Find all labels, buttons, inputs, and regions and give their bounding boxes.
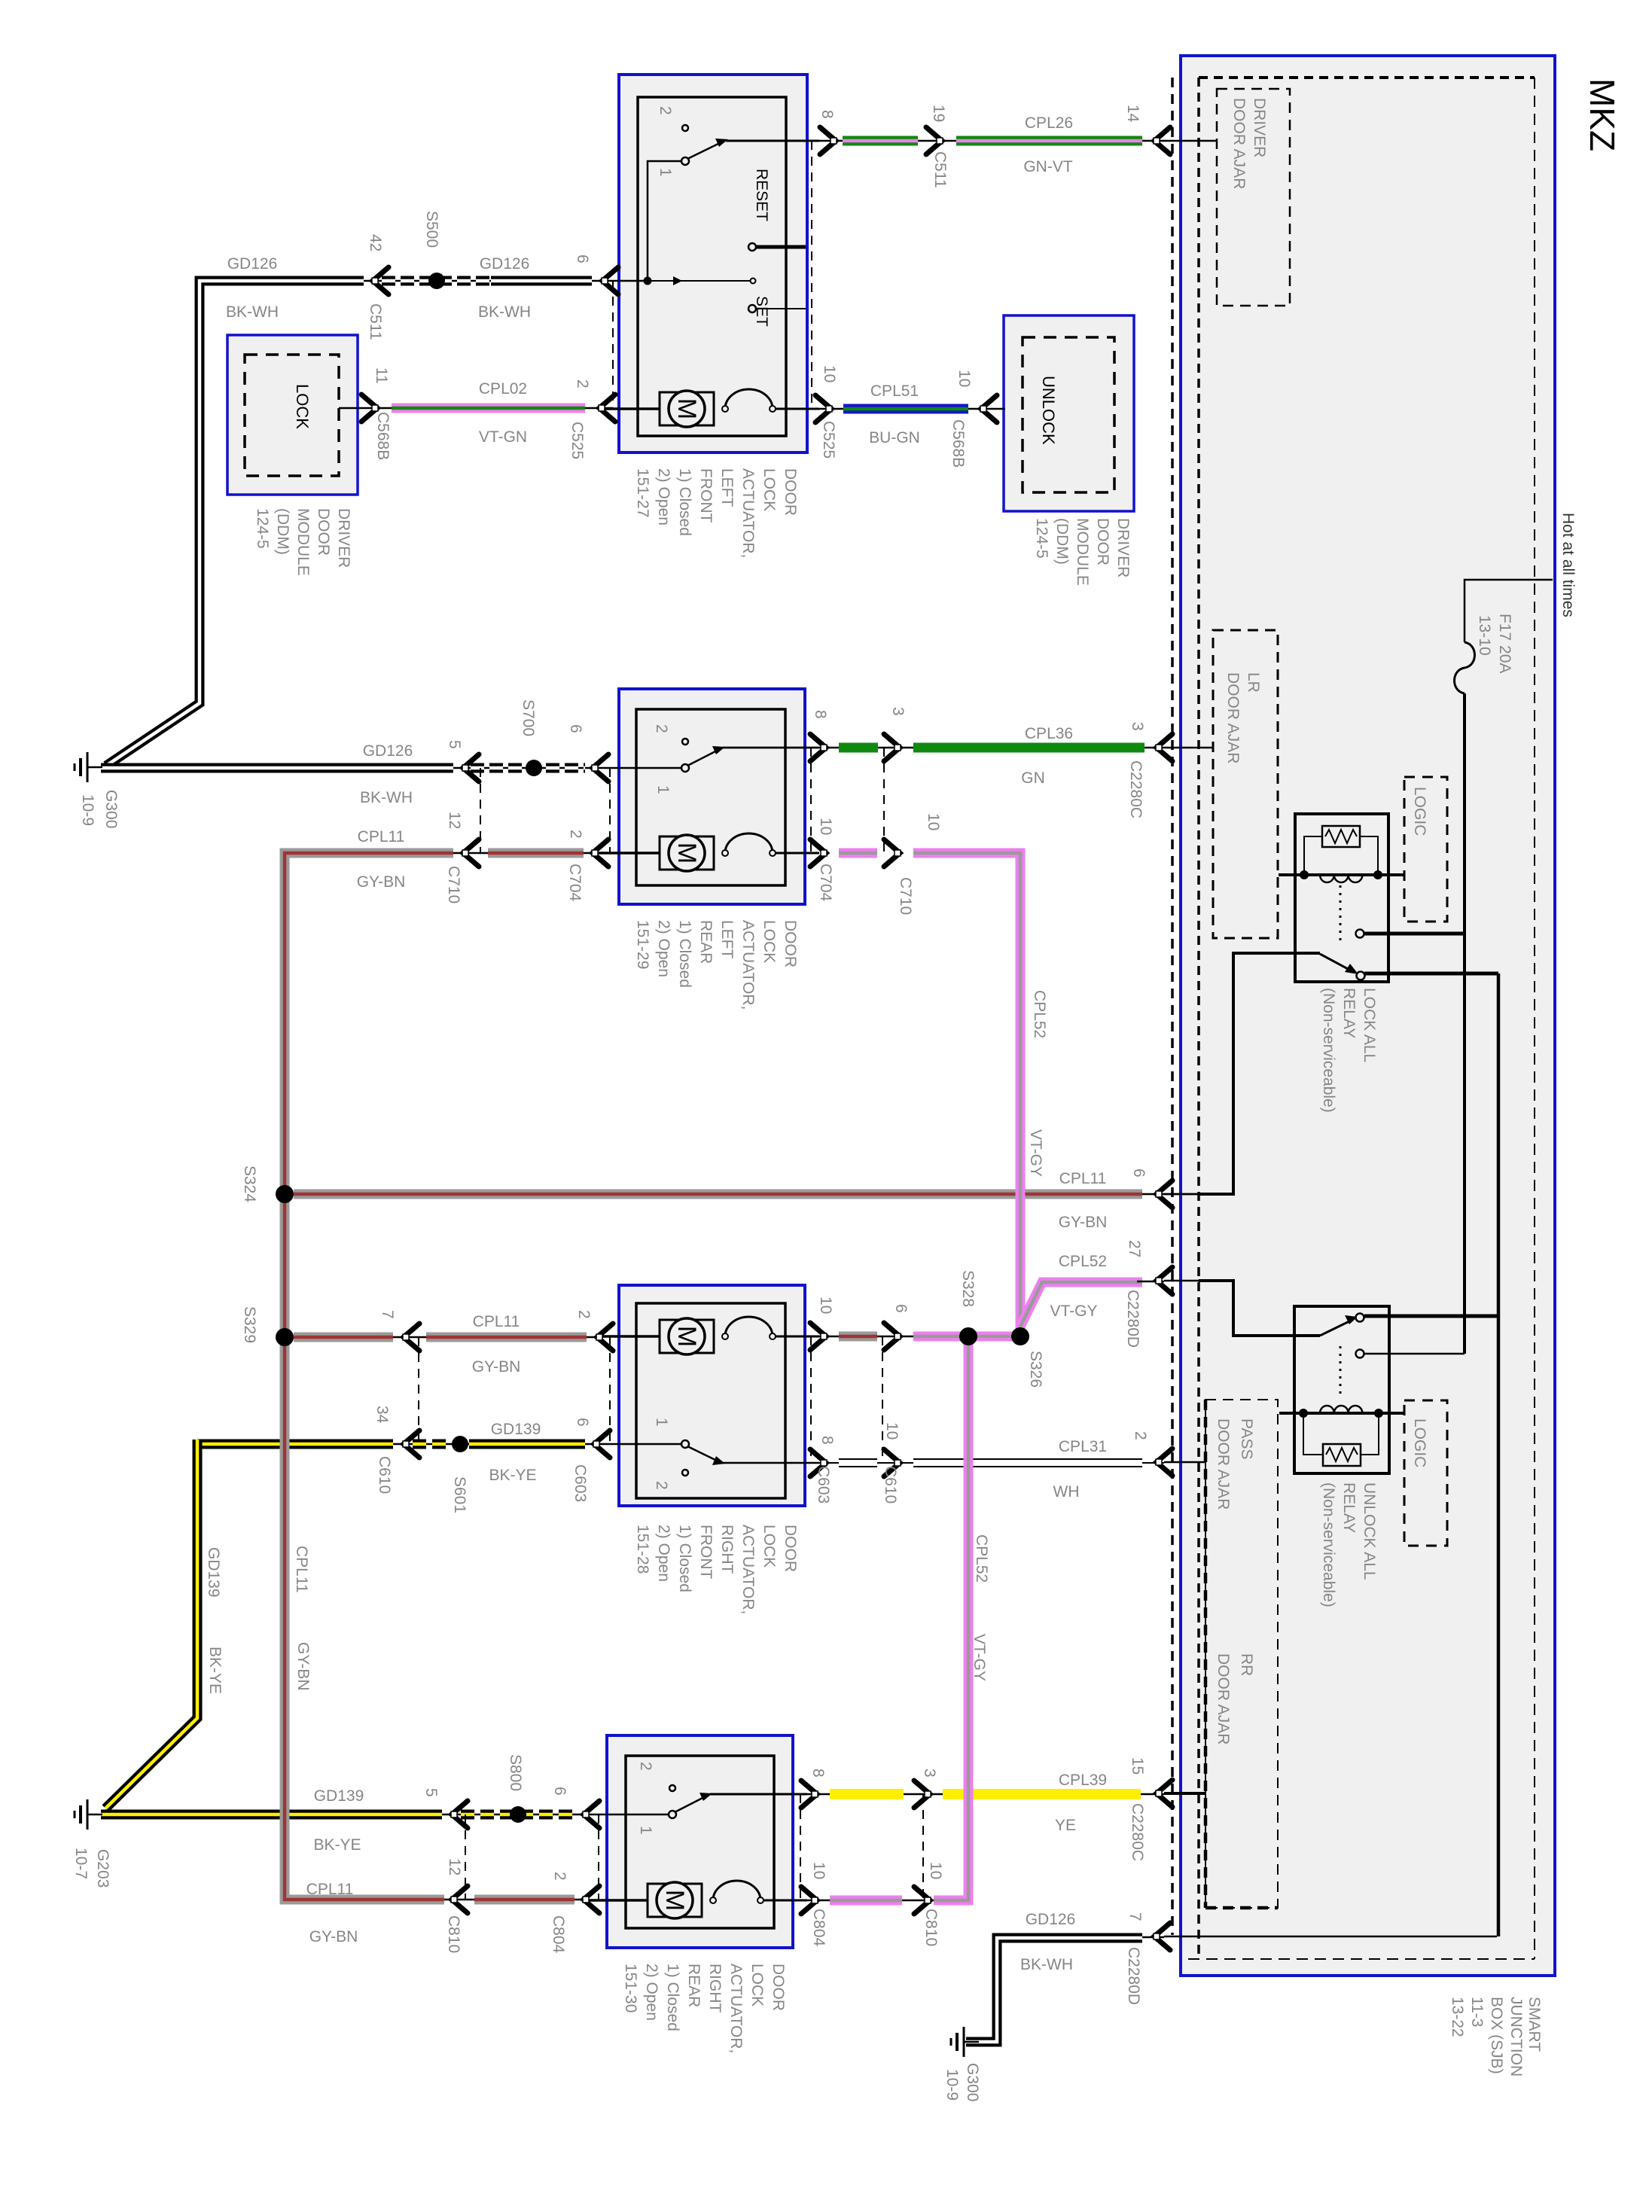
relay U2 coil feed line (1279, 1412, 1404, 1415)
resistor R2 (relay U2 suppression) (1323, 1444, 1361, 1466)
svg-text:C511: C511 (367, 303, 384, 340)
svg-text:CPL52: CPL52 (1031, 990, 1048, 1038)
svg-text:DOOR: DOOR (1094, 518, 1111, 565)
PASS / RR DOOR AJAR block (1205, 1400, 1278, 1908)
splice S601 (452, 1436, 468, 1452)
svg-text:LOCK: LOCK (293, 384, 312, 429)
wire CPL26 stub into DRIVER DOOR AJAR (1164, 140, 1217, 142)
relay U1 fixed contact to hot bus (1356, 930, 1364, 938)
LOGIC block (unlock relay) (1404, 1400, 1447, 1546)
switch (left rear actuator) (682, 739, 688, 745)
svg-text:C2280D: C2280D (1125, 1947, 1142, 2005)
svg-text:GY-BN: GY-BN (294, 1642, 312, 1691)
svg-text:M: M (672, 398, 701, 419)
svg-text:GD139: GD139 (491, 1421, 541, 1438)
svg-text:CPL52: CPL52 (1059, 1253, 1107, 1270)
relay U1 coil (1320, 875, 1362, 882)
svg-text:10: 10 (810, 1862, 828, 1879)
svg-text:BK-YE: BK-YE (206, 1647, 224, 1694)
svg-text:3: 3 (1129, 722, 1146, 731)
wire CPL02 VT-GN LOCK output (339, 407, 613, 410)
relay U2 fixed contact to hot bus (1356, 1350, 1364, 1358)
svg-text:CPL11: CPL11 (358, 828, 405, 845)
svg-text:S700: S700 (520, 699, 537, 736)
connector chevrons row CPL39 (801, 1781, 818, 1808)
door lock actuator right front box (619, 1285, 805, 1506)
wire CPL11 pin6 stub (1164, 1193, 1205, 1196)
svg-text:SMART: SMART (1526, 1997, 1543, 2052)
svg-text:PASS: PASS (1238, 1418, 1255, 1459)
connector C710 dashed boundary (left) (480, 768, 481, 853)
DRIVER DOOR AJAR block (1217, 89, 1290, 306)
svg-text:124-5: 124-5 (254, 508, 271, 549)
splice S326 (1011, 1327, 1029, 1345)
node coil junction dots U2 (1299, 1409, 1308, 1418)
connector C810 dashed boundary (right) (922, 1794, 924, 1900)
svg-text:8: 8 (818, 110, 836, 119)
svg-text:GY-BN: GY-BN (309, 1928, 358, 1945)
wire CPL31 stub into PASS DOOR AJAR (1164, 1461, 1205, 1464)
svg-text:VT-GY: VT-GY (1027, 1129, 1044, 1177)
svg-text:27: 27 (1126, 1240, 1143, 1257)
svg-text:3: 3 (921, 1769, 938, 1778)
svg-text:BK-YE: BK-YE (489, 1467, 536, 1484)
motor M (right front actuator) (603, 1335, 660, 1338)
svg-text:C511: C511 (931, 151, 949, 188)
svg-text:2: 2 (653, 724, 670, 733)
svg-text:DOOR: DOOR (782, 1525, 799, 1572)
svg-text:5: 5 (422, 1788, 440, 1797)
connector chevrons row CPL26 (820, 127, 837, 154)
svg-text:LR: LR (1245, 672, 1262, 693)
relay U2 movable contact (1320, 1321, 1351, 1336)
wire CPL39 YE right rear switch to SJB (807, 1793, 1164, 1796)
relay U1 actuation dotted link (1340, 885, 1342, 943)
fuse F17 20A (1455, 642, 1475, 693)
svg-text:C710: C710 (897, 877, 914, 915)
svg-text:JUNCTION: JUNCTION (1507, 1997, 1525, 2076)
svg-text:VT-GY: VT-GY (1050, 1303, 1097, 1320)
svg-text:BU-GN: BU-GN (869, 429, 920, 446)
motor M (right rear actuator) (588, 1899, 648, 1902)
svg-text:G300: G300 (102, 790, 120, 828)
svg-text:2) Open: 2) Open (655, 468, 672, 526)
svg-text:2: 2 (653, 1481, 670, 1490)
relay U2 coil (1320, 1406, 1362, 1413)
node coil junction dots U1 (1300, 870, 1309, 879)
svg-text:UNLOCK ALL: UNLOCK ALL (1361, 1482, 1378, 1580)
switch (right rear actuator) (669, 1785, 675, 1791)
svg-text:GD126: GD126 (227, 255, 278, 273)
svg-text:ACTUATOR,: ACTUATOR, (739, 920, 757, 1010)
svg-text:DRIVER: DRIVER (1251, 98, 1268, 157)
svg-text:11-3: 11-3 (1468, 1997, 1486, 2027)
svg-text:C710: C710 (445, 866, 462, 903)
wire GD126 BK-WH bottom right to G300 (1142, 1936, 1164, 1939)
wire GD139 BK-YE row bottom from G203 (101, 1814, 588, 1816)
wire resistor parallel links U1 (1304, 836, 1322, 875)
svg-text:C603: C603 (571, 1464, 589, 1502)
switch (right front actuator) (600, 1443, 681, 1446)
wire GD126 pin7 to relay output bus (1164, 1936, 1497, 1938)
connector chevrons row GD139 right front (403, 1430, 419, 1458)
svg-text:REAR: REAR (697, 920, 715, 964)
svg-text:2: 2 (551, 1872, 568, 1881)
SET contact (left front actuator) (748, 305, 756, 312)
svg-text:CPL11: CPL11 (306, 1881, 354, 1898)
wire CPL52 VT-GY vertical from left rear motor to S326 (913, 853, 1020, 1336)
svg-text:(DDM): (DDM) (274, 508, 291, 555)
svg-text:DOOR: DOOR (782, 920, 799, 967)
connector C525 dashed boundary (actuator right side) (811, 141, 812, 409)
SJB inner dashed boundary (bold top/left) (1199, 76, 1535, 79)
door lock actuator right rear box (607, 1735, 793, 1948)
wire CPL52 pin27 stub (1164, 1280, 1205, 1282)
connector chevrons row CPL11 left rear (462, 839, 479, 867)
svg-text:RIGHT: RIGHT (718, 1525, 736, 1574)
svg-text:M: M (672, 842, 701, 864)
svg-text:DOOR: DOOR (782, 468, 799, 516)
splice S328 (959, 1327, 977, 1345)
door lock actuator left rear box (619, 689, 805, 904)
svg-text:C704: C704 (566, 864, 584, 902)
svg-text:CPL11: CPL11 (293, 1546, 310, 1593)
svg-text:C525: C525 (820, 421, 837, 459)
svg-text:UNLOCK: UNLOCK (1039, 376, 1058, 445)
svg-text:8: 8 (809, 1769, 827, 1778)
svg-text:C704: C704 (817, 864, 834, 902)
svg-text:10: 10 (927, 1862, 944, 1879)
svg-text:GD126: GD126 (1026, 1911, 1076, 1928)
svg-text:GD126: GD126 (363, 742, 413, 760)
connector C704 dashed boundary (right) (810, 748, 812, 853)
svg-text:LOCK: LOCK (760, 1525, 778, 1568)
svg-text:F17 20A: F17 20A (1496, 614, 1513, 673)
svg-text:151-30: 151-30 (622, 1964, 639, 2012)
svg-text:DRIVER: DRIVER (335, 508, 352, 568)
svg-text:2: 2 (574, 379, 591, 388)
svg-text:CPL31: CPL31 (1059, 1438, 1107, 1455)
svg-text:GY-BN: GY-BN (357, 873, 406, 891)
wire GD126 BK-WH segment to pin 6 (491, 276, 592, 286)
relay U1 movable contact (1320, 954, 1351, 970)
switch (left front actuator) (682, 125, 688, 131)
svg-text:MKZ: MKZ (1583, 78, 1622, 151)
svg-text:CPL11: CPL11 (1059, 1170, 1107, 1187)
svg-text:C568B: C568B (374, 412, 392, 460)
svg-text:42: 42 (367, 234, 384, 251)
svg-text:C525: C525 (568, 422, 586, 459)
svg-text:CPL51: CPL51 (870, 382, 919, 400)
svg-text:7: 7 (1126, 1912, 1144, 1921)
svg-text:CPL39: CPL39 (1059, 1772, 1107, 1789)
connector chevrons row GD126 row1 (372, 267, 389, 294)
LOGIC block (lock relay) (1404, 777, 1447, 922)
svg-text:GD139: GD139 (314, 1787, 364, 1805)
svg-text:M: M (672, 1326, 701, 1347)
relay U1 coil feed line (1279, 873, 1404, 876)
svg-text:C2280D: C2280D (1124, 1290, 1141, 1348)
svg-text:13-10: 13-10 (1476, 615, 1493, 656)
wire CPL51 BU-GN to UNLOCK (776, 408, 1005, 410)
wire relay U1 output to bus (1364, 972, 1498, 976)
svg-text:S324: S324 (241, 1165, 258, 1202)
svg-text:FRONT: FRONT (697, 1525, 715, 1579)
svg-text:CPL52: CPL52 (973, 1534, 990, 1583)
connector chevron GD126 pin7 SJB (1154, 1923, 1170, 1950)
connector C525 dashed boundary (driver door) (612, 281, 614, 408)
wire CPL36 stub into LR DOOR AJAR (1164, 747, 1213, 749)
svg-text:151-27: 151-27 (634, 468, 651, 517)
svg-text:6: 6 (892, 1304, 910, 1313)
svg-text:ACTUATOR,: ACTUATOR, (739, 468, 757, 558)
fuse F17 20A feed wire (1465, 580, 1553, 642)
svg-text:10-9: 10-9 (79, 794, 96, 826)
wire relay output bus to GD126 pin 7 (1497, 973, 1501, 1936)
svg-text:6: 6 (551, 1787, 568, 1796)
wire GD126 BK-WH row1 thin core line (364, 280, 646, 282)
svg-text:CPL36: CPL36 (1025, 725, 1073, 742)
svg-text:MODULE: MODULE (294, 508, 312, 576)
svg-text:6: 6 (574, 1418, 591, 1427)
svg-text:RR: RR (1238, 1653, 1255, 1676)
wire CPL52 VT-GY dogleg from S326 to SJB pin 27 (1020, 1282, 1142, 1327)
svg-text:BOX (SJB): BOX (SJB) (1488, 1997, 1505, 2074)
svg-text:(DDM): (DDM) (1053, 518, 1071, 565)
wire CPL36 GN left rear switch to SJB (723, 747, 1164, 749)
wire CPL39 stub into RR DOOR AJAR (1164, 1792, 1205, 1795)
connector chevrons row CPL02 (361, 395, 378, 422)
svg-text:RELAY: RELAY (1340, 988, 1358, 1038)
wire CPL31 WH right front switch to SJB (819, 1462, 839, 1464)
svg-text:124-5: 124-5 (1033, 518, 1050, 559)
wire resistor parallel links U2 (1303, 1413, 1323, 1455)
svg-text:LOGIC: LOGIC (1411, 787, 1428, 836)
svg-text:GN: GN (1021, 769, 1045, 787)
wire GD126 BK-WH from driver actuator to G300 (corner + diagonal) (106, 281, 364, 766)
svg-text:15: 15 (1129, 1757, 1146, 1775)
connector chevrons row CPL31 (810, 1449, 827, 1476)
svg-text:10-9: 10-9 (943, 2069, 961, 2101)
wire CPL11 pin6 to relay U1 movable arm (1199, 953, 1320, 1194)
RESET contact (left front actuator) (748, 243, 756, 251)
svg-text:151-29: 151-29 (634, 920, 651, 969)
motor M (left front actuator) (599, 407, 660, 410)
svg-text:12: 12 (446, 1858, 463, 1875)
svg-text:G300: G300 (964, 2063, 981, 2101)
svg-text:11: 11 (373, 367, 390, 384)
svg-text:8: 8 (812, 710, 829, 719)
svg-text:BK-WH: BK-WH (226, 303, 279, 321)
svg-text:Hot at all times: Hot at all times (1559, 513, 1577, 617)
svg-text:DRIVER: DRIVER (1114, 518, 1132, 577)
svg-text:C610: C610 (376, 1456, 393, 1494)
svg-text:C2280C: C2280C (1129, 1803, 1146, 1861)
svg-text:REAR: REAR (685, 1964, 703, 2007)
connector C710 dashed boundary (right) (883, 748, 885, 853)
svg-text:3: 3 (889, 707, 907, 716)
svg-text:1) Closed: 1) Closed (676, 468, 693, 536)
svg-text:BK-WH: BK-WH (1020, 1956, 1073, 1973)
svg-text:M: M (660, 1890, 689, 1911)
svg-text:VT-GN: VT-GN (479, 428, 527, 446)
connector C603 dashed boundary (right) (810, 1336, 812, 1463)
svg-text:GY-BN: GY-BN (472, 1358, 521, 1376)
svg-text:LOCK: LOCK (748, 1964, 766, 2006)
svg-text:7: 7 (379, 1310, 396, 1319)
svg-text:1: 1 (657, 168, 674, 177)
svg-text:10: 10 (817, 818, 834, 835)
svg-text:1: 1 (654, 785, 672, 794)
resistor R1 (relay U1 suppression) (1322, 826, 1360, 847)
connector C804 dashed boundary (right) (800, 1794, 801, 1900)
svg-text:(Non-serviceable): (Non-serviceable) (1320, 988, 1337, 1113)
ground G300 (upper) (75, 752, 102, 782)
ground G203 (75, 1799, 102, 1830)
connector chevrons row CPL51 (815, 395, 832, 422)
svg-text:GN-VT: GN-VT (1023, 158, 1073, 175)
connector C610 dashed boundary (left) (418, 1337, 419, 1444)
svg-text:34: 34 (373, 1406, 391, 1424)
svg-text:C568B: C568B (949, 419, 967, 468)
svg-text:2) Open: 2) Open (655, 1525, 672, 1582)
svg-text:LOGIC: LOGIC (1411, 1418, 1428, 1467)
wire relay U2 common to output bus (1364, 1315, 1498, 1318)
wire GD126 dashed splice segment at S500 (382, 276, 489, 286)
svg-text:DOOR AJAR: DOOR AJAR (1215, 1653, 1232, 1744)
svg-text:YE: YE (1055, 1817, 1076, 1834)
svg-text:ACTUATOR,: ACTUATOR, (739, 1525, 757, 1614)
svg-text:S800: S800 (507, 1754, 524, 1791)
ground G300 (lower right) (951, 2027, 979, 2057)
wire GD126 BK-WH row2 from G300 (101, 767, 599, 769)
wire CPL52 VT-GY between C610 and S328/S326 (913, 1332, 1020, 1342)
svg-text:2: 2 (567, 830, 584, 839)
svg-text:CPL02: CPL02 (479, 380, 527, 398)
DDM LOCK command block (227, 335, 358, 495)
svg-text:10-7: 10-7 (72, 1848, 90, 1879)
svg-text:2: 2 (637, 1762, 654, 1771)
svg-text:12: 12 (446, 812, 463, 829)
wire CPL52 VT-GY right rear motor row (764, 1900, 941, 1902)
svg-text:BK-WH: BK-WH (360, 789, 413, 806)
svg-text:10: 10 (956, 370, 973, 387)
svg-text:8: 8 (818, 1436, 836, 1445)
connector chevrons row GD139 bottom (451, 1801, 468, 1828)
svg-text:6: 6 (1130, 1168, 1148, 1178)
motor M (left rear actuator) (599, 852, 660, 855)
svg-text:C804: C804 (550, 1915, 567, 1954)
svg-text:2: 2 (575, 1310, 593, 1319)
splice S329 (276, 1328, 294, 1346)
LR DOOR AJAR block (1213, 630, 1278, 938)
connector chevrons row CPL36 (810, 734, 827, 761)
svg-text:S328: S328 (959, 1270, 977, 1307)
svg-text:S329: S329 (241, 1306, 258, 1343)
wire CPL11 GY-BN main run (left rear corner, S324, S329, right rear corner) (453, 852, 599, 855)
svg-text:C603: C603 (815, 1466, 832, 1504)
svg-text:1: 1 (653, 1418, 670, 1427)
connector C704 dashed boundary (left) (609, 768, 611, 853)
svg-text:RELAY: RELAY (1340, 1482, 1358, 1533)
svg-text:C610: C610 (882, 1466, 899, 1504)
connector C804 dashed boundary (left) (598, 1814, 599, 1900)
wire CPL26 GN-VT row1 (819, 140, 1164, 142)
splice S700 (526, 760, 542, 776)
svg-text:C810: C810 (922, 1909, 940, 1946)
svg-text:CPL26: CPL26 (1025, 114, 1073, 132)
svg-text:GD126: GD126 (480, 255, 530, 273)
node junction pin1/wiper (left front actuator) (644, 277, 652, 285)
svg-text:RESET: RESET (753, 169, 770, 221)
svg-text:10: 10 (883, 1422, 901, 1440)
splice S500 (428, 273, 445, 289)
relay U2 UNLOCK ALL RELAY box (1294, 1306, 1389, 1473)
svg-text:1: 1 (637, 1826, 654, 1835)
svg-text:G203: G203 (94, 1849, 111, 1888)
svg-text:C810: C810 (445, 1915, 462, 1953)
svg-text:2) Open: 2) Open (655, 920, 672, 977)
DDM UNLOCK command block (1004, 315, 1134, 511)
svg-text:GY-BN: GY-BN (1059, 1214, 1108, 1231)
svg-text:10: 10 (817, 1296, 834, 1314)
svg-text:RIGHT: RIGHT (706, 1964, 724, 2013)
svg-text:5: 5 (446, 740, 463, 749)
svg-text:LOCK: LOCK (760, 920, 778, 963)
connector chevrons row CPL11 right rear (451, 1886, 468, 1913)
relay U1 LOCK ALL RELAY box (1295, 814, 1388, 982)
connector chevron CPL52 pin27 SJB (1156, 1267, 1172, 1294)
svg-text:6: 6 (574, 254, 591, 264)
wire CPL52 VT-GY vertical from S328 to right rear motor (934, 1336, 968, 1900)
svg-text:FRONT: FRONT (697, 468, 715, 523)
svg-text:1) Closed: 1) Closed (676, 1525, 693, 1592)
svg-text:2: 2 (657, 106, 674, 115)
svg-text:13-22: 13-22 (1449, 1997, 1466, 2037)
svg-text:10: 10 (925, 813, 942, 830)
svg-text:19: 19 (930, 105, 947, 122)
svg-text:BK-YE: BK-YE (313, 1836, 361, 1854)
svg-text:1) Closed: 1) Closed (676, 920, 693, 988)
connector C810 dashed boundary (left) (465, 1814, 466, 1900)
svg-text:CPL11: CPL11 (473, 1313, 520, 1330)
wire CPL11 GY-BN right front motor right side (776, 1336, 971, 1338)
splice S324 (276, 1185, 294, 1203)
connector chevrons row CPL52 left rear motor (810, 839, 827, 867)
connector C603 dashed boundary (left) (609, 1337, 611, 1444)
svg-text:SET: SET (753, 296, 770, 327)
svg-text:LOCK ALL: LOCK ALL (1361, 988, 1378, 1062)
wire CPL11 GY-BN S324 to SJB pin 6 (294, 1190, 1142, 1199)
connector chevrons row CPL11 right front (403, 1324, 419, 1351)
svg-text:2: 2 (1132, 1431, 1149, 1440)
outer dashed vehicle line left of SJB (1171, 78, 1174, 1935)
svg-text:(Non-serviceable): (Non-serviceable) (1320, 1482, 1337, 1607)
svg-text:S326: S326 (1027, 1351, 1044, 1388)
svg-text:S601: S601 (451, 1476, 468, 1513)
svg-text:10: 10 (821, 365, 838, 382)
svg-text:C2280C: C2280C (1127, 760, 1145, 818)
svg-text:14: 14 (1124, 105, 1141, 123)
svg-text:WH: WH (1053, 1483, 1080, 1501)
svg-text:ACTUATOR,: ACTUATOR, (727, 1964, 745, 2053)
svg-text:DOOR AJAR: DOOR AJAR (1230, 98, 1248, 189)
svg-text:1) Closed: 1) Closed (664, 1964, 681, 2031)
relay U2 actuation dotted link (1340, 1346, 1342, 1399)
svg-text:GD139: GD139 (205, 1547, 222, 1598)
svg-text:LEFT: LEFT (718, 920, 736, 959)
door lock actuator left front box (619, 75, 807, 452)
